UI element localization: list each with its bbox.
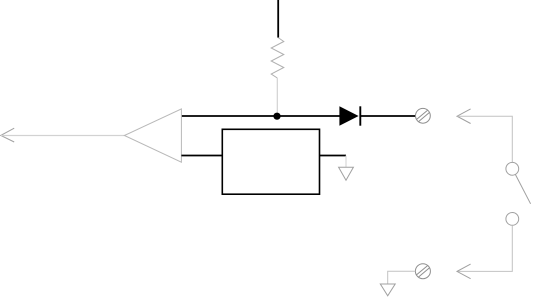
wire op-amp output to diode anode: [181, 115, 340, 117]
wire ground drop: [345, 156, 347, 168]
wire box right to ground arrow: [320, 155, 347, 157]
switch S1 pole contact: [506, 162, 519, 175]
terminal X2: [415, 264, 430, 279]
op-amp U1: [124, 109, 181, 162]
diode D1: [339, 106, 360, 125]
terminal X1: [416, 108, 431, 123]
resistor R1: [271, 38, 284, 78]
wire op-amp lower stub to box: [181, 155, 222, 157]
off-page arrow right top: [457, 109, 471, 124]
connector arrow down bottom left: [380, 284, 395, 296]
switch S1 lever: [515, 175, 530, 204]
connector arrow down middle: [339, 167, 354, 180]
wire switch to bottom arrow: [458, 225, 513, 271]
switch S1 throw contact: [506, 213, 519, 226]
off-page arrow right bottom: [457, 264, 471, 279]
wire input lead: [1, 135, 124, 137]
wire resistor to junction: [276, 78, 278, 113]
node junction dot: [273, 113, 280, 120]
wire diode cathode to terminal: [361, 115, 415, 117]
off-page arrow left: [1, 128, 14, 142]
wire arrow to switch elbow: [458, 116, 513, 162]
wire terminal X2 to down arrow: [388, 271, 416, 284]
wire top supply vertical: [277, 0, 279, 38]
box U2: [222, 129, 319, 194]
